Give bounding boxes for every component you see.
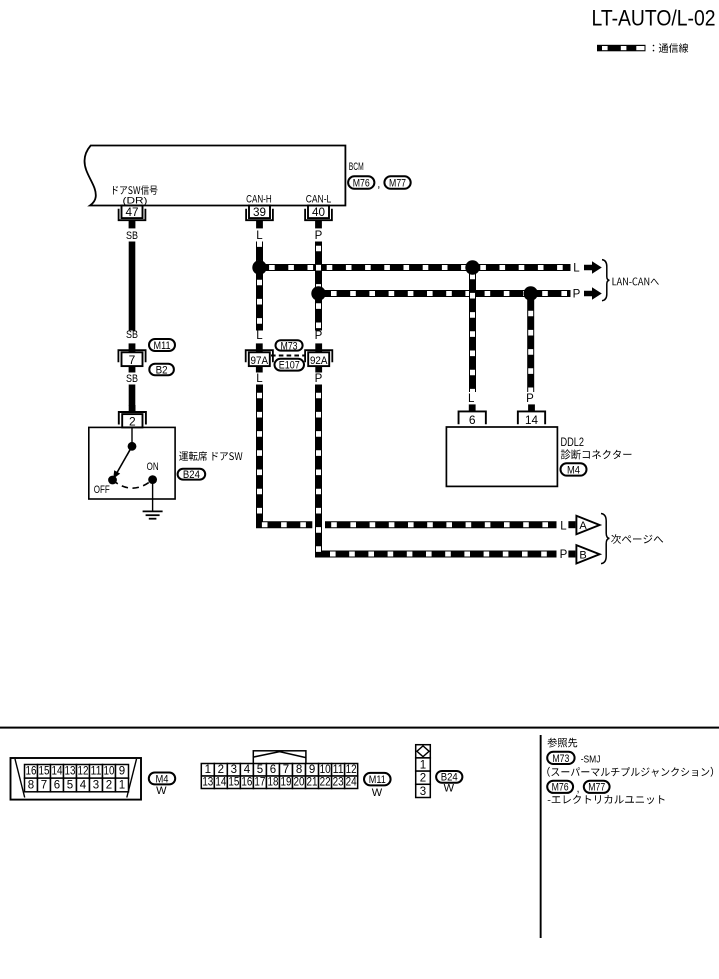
svg-text:,: , bbox=[577, 783, 580, 795]
svg-text:7: 7 bbox=[283, 764, 289, 776]
svg-text:5: 5 bbox=[67, 779, 73, 791]
ground symbol bbox=[143, 511, 163, 518]
svg-text:CAN-L: CAN-L bbox=[306, 193, 332, 205]
CAN-H wire from pin 39 bbox=[256, 242, 263, 331]
DDL2 pin 6 bbox=[469, 404, 476, 412]
BCM pin 39 bbox=[246, 209, 273, 221]
connector square for arrow A bbox=[568, 521, 575, 528]
arrow to LAN-CAN (CAN-L) bbox=[584, 287, 602, 300]
svg-text:22: 22 bbox=[320, 777, 331, 789]
label エレクトリカルユニット bbox=[548, 795, 665, 804]
svg-text:21: 21 bbox=[307, 777, 318, 789]
svg-text:6: 6 bbox=[270, 764, 276, 776]
connector M77 oval bbox=[584, 781, 610, 793]
CAN-L bus wire to LAN-CAN (P) bbox=[319, 290, 571, 297]
next page arrow A bbox=[576, 516, 599, 534]
CAN-L wire from pin 40 bbox=[315, 242, 322, 331]
svg-text:L: L bbox=[468, 393, 475, 405]
svg-text:12: 12 bbox=[78, 766, 89, 778]
switch common contact dot bbox=[128, 442, 137, 451]
DDL2 diagnostic connector box bbox=[446, 427, 557, 486]
svg-text:M76: M76 bbox=[552, 782, 569, 794]
svg-text:2: 2 bbox=[129, 415, 136, 429]
ON contact dot bbox=[148, 475, 157, 484]
BCM control module box bbox=[84, 146, 345, 206]
svg-text:11: 11 bbox=[333, 764, 344, 776]
arrow to LAN-CAN (CAN-H) bbox=[584, 261, 602, 274]
svg-text:2: 2 bbox=[420, 773, 426, 785]
junction dot CAN-L at pin40 column bbox=[311, 286, 325, 300]
svg-text:L: L bbox=[256, 373, 263, 385]
junction dot CAN-H at DDL2 branch bbox=[465, 260, 479, 274]
svg-text:P: P bbox=[560, 549, 568, 561]
svg-text:1: 1 bbox=[420, 760, 426, 772]
svg-text:P: P bbox=[526, 393, 534, 405]
svg-text:15: 15 bbox=[228, 777, 239, 789]
svg-text:M77: M77 bbox=[389, 177, 406, 189]
svg-text:1: 1 bbox=[119, 779, 125, 791]
connector E107 oval bbox=[275, 359, 305, 371]
dashed link between 97A and 92A bbox=[271, 355, 305, 357]
connector M76 oval bbox=[547, 781, 573, 793]
svg-text:M4: M4 bbox=[156, 773, 169, 785]
svg-text:10: 10 bbox=[104, 766, 115, 778]
svg-text:47: 47 bbox=[126, 205, 139, 219]
connector face M4 bbox=[11, 758, 142, 800]
svg-text:L: L bbox=[256, 230, 263, 242]
svg-text:M76: M76 bbox=[353, 177, 370, 189]
svg-text:M73: M73 bbox=[281, 340, 298, 352]
BCM internal label ドアSW信号 bbox=[113, 185, 158, 195]
svg-text:3: 3 bbox=[93, 779, 99, 791]
svg-text:7: 7 bbox=[129, 353, 136, 367]
CAN-H wire continues right of crossing bbox=[325, 521, 557, 528]
junction dot CAN-L at DDL2 branch bbox=[524, 286, 538, 300]
wire ON contact to ground bbox=[152, 480, 154, 512]
svg-text:M4: M4 bbox=[567, 464, 580, 476]
switch blade with arrowhead toward OFF bbox=[117, 446, 133, 473]
wire SB from BCM pin47 to connector M11/B2 bbox=[129, 242, 136, 331]
svg-text:L: L bbox=[256, 330, 263, 342]
svg-text:4: 4 bbox=[244, 764, 251, 776]
door switch pin 2 bbox=[129, 405, 136, 412]
svg-text:M11: M11 bbox=[369, 774, 386, 786]
svg-text:M77: M77 bbox=[588, 782, 605, 794]
svg-text:W: W bbox=[372, 787, 383, 799]
connector B24 oval bbox=[436, 771, 462, 783]
brace for LAN-CAN group bbox=[602, 260, 609, 301]
connector square for arrow B bbox=[568, 551, 575, 558]
svg-text:E107: E107 bbox=[279, 360, 300, 372]
svg-text:M73: M73 bbox=[552, 753, 569, 765]
svg-text:40: 40 bbox=[312, 205, 325, 219]
svg-text:B: B bbox=[579, 549, 586, 561]
connector face B24 bbox=[416, 745, 431, 798]
svg-text:P: P bbox=[315, 230, 323, 242]
connector M11 oval bbox=[364, 773, 391, 786]
svg-text:12: 12 bbox=[346, 764, 357, 776]
connector face M11 bbox=[201, 751, 357, 789]
svg-text:16: 16 bbox=[241, 777, 252, 789]
svg-text:10: 10 bbox=[320, 764, 331, 776]
svg-text:3: 3 bbox=[420, 786, 426, 798]
svg-text:14: 14 bbox=[52, 766, 64, 778]
svg-text:DDL2: DDL2 bbox=[561, 437, 585, 449]
svg-text:W: W bbox=[156, 785, 167, 797]
connector M76 oval bbox=[348, 176, 374, 189]
svg-text:SB: SB bbox=[126, 373, 138, 385]
legend label 通信線 bbox=[653, 43, 689, 53]
label スーパーマルチプルジャンクション bbox=[547, 767, 713, 777]
svg-text:13: 13 bbox=[202, 777, 213, 789]
svg-text:B24: B24 bbox=[183, 469, 200, 481]
svg-text:,: , bbox=[377, 179, 380, 191]
svg-text:CAN-H: CAN-H bbox=[246, 193, 272, 205]
inline connector 97A bbox=[256, 343, 263, 352]
label LAN-CANへ bbox=[613, 278, 659, 286]
svg-text:23: 23 bbox=[333, 777, 344, 789]
svg-text:8: 8 bbox=[296, 764, 302, 776]
svg-text:L: L bbox=[573, 263, 580, 275]
svg-text:OFF: OFF bbox=[94, 484, 110, 496]
svg-text:SB: SB bbox=[126, 230, 138, 242]
CAN-H bus wire to LAN-CAN (L) bbox=[260, 264, 571, 271]
next page arrow B bbox=[576, 545, 599, 563]
label 次ページへ bbox=[611, 534, 663, 544]
svg-text:ON: ON bbox=[147, 461, 159, 473]
junction dot CAN-H at pin39 column bbox=[252, 260, 266, 274]
svg-text:M11: M11 bbox=[154, 340, 171, 352]
svg-text:P: P bbox=[315, 373, 323, 385]
BCM pin 47 bbox=[119, 209, 146, 221]
svg-text:39: 39 bbox=[253, 205, 266, 219]
CAN-H wire from 97A down and right to next page A bbox=[260, 385, 313, 525]
reference heading 参照先 bbox=[547, 738, 577, 748]
svg-text:16: 16 bbox=[26, 766, 37, 778]
inline connector 7 (M11/B2) bbox=[129, 343, 136, 352]
svg-text:6: 6 bbox=[54, 779, 60, 791]
svg-text:14: 14 bbox=[525, 413, 538, 427]
svg-text:20: 20 bbox=[294, 777, 305, 789]
svg-text:-SMJ: -SMJ bbox=[581, 754, 601, 766]
svg-text:SB: SB bbox=[126, 329, 138, 341]
CAN-L wire from 92A down and right to next page B bbox=[319, 385, 557, 555]
svg-text:B2: B2 bbox=[156, 364, 168, 376]
svg-text:15: 15 bbox=[39, 766, 50, 778]
DDL2 label 診断コネクター bbox=[561, 449, 632, 459]
svg-text:9: 9 bbox=[119, 766, 125, 778]
connector M4 oval bbox=[149, 773, 175, 785]
svg-text:6: 6 bbox=[469, 413, 476, 427]
svg-text:92A: 92A bbox=[310, 355, 328, 367]
svg-text:A: A bbox=[579, 520, 587, 532]
svg-text:2: 2 bbox=[218, 764, 224, 776]
wire SB from connector 7 to door switch pin 2 bbox=[129, 385, 136, 406]
switch common node wire bbox=[131, 427, 133, 444]
svg-text:P: P bbox=[315, 330, 323, 342]
svg-text:2: 2 bbox=[106, 779, 112, 791]
svg-text:8: 8 bbox=[28, 779, 34, 791]
connector M73 oval bbox=[276, 340, 303, 350]
DDL2 pin 14 bbox=[528, 404, 535, 412]
dashed throw arc OFF to ON bbox=[113, 480, 153, 489]
connector M4 oval bbox=[561, 463, 587, 475]
connector B2 oval bbox=[149, 364, 174, 376]
svg-text:11: 11 bbox=[91, 766, 102, 778]
svg-text:LT-AUTO/L-02: LT-AUTO/L-02 bbox=[592, 6, 716, 31]
legend communication-line sample bar bbox=[597, 45, 646, 52]
CAN-L branch wire down to DDL2 pin 14 bbox=[527, 294, 534, 393]
connector M73 oval bbox=[547, 752, 574, 764]
svg-text:18: 18 bbox=[267, 777, 278, 789]
svg-text:L: L bbox=[560, 520, 567, 532]
OFF contact dot bbox=[108, 476, 117, 485]
svg-text:W: W bbox=[444, 783, 455, 795]
inline connector 92A bbox=[315, 343, 322, 352]
BCM pin 40 bbox=[305, 209, 332, 221]
connector M77 oval bbox=[384, 176, 410, 189]
footer separator line bbox=[0, 727, 719, 729]
connector B24 oval bbox=[178, 469, 206, 480]
reference panel divider bbox=[540, 735, 542, 938]
svg-text:9: 9 bbox=[309, 764, 315, 776]
svg-text:97A: 97A bbox=[251, 355, 269, 367]
svg-text:BCM: BCM bbox=[349, 161, 364, 173]
svg-text:3: 3 bbox=[231, 764, 237, 776]
svg-text:17: 17 bbox=[254, 777, 265, 789]
door switch box (運転席ドアSW B24) bbox=[89, 427, 175, 499]
svg-text:7: 7 bbox=[41, 779, 47, 791]
svg-text:P: P bbox=[573, 289, 581, 301]
connector M11 oval bbox=[149, 339, 175, 351]
CAN-H branch wire down to DDL2 pin 6 bbox=[469, 268, 476, 393]
svg-text:5: 5 bbox=[257, 764, 263, 776]
svg-text:13: 13 bbox=[65, 766, 76, 778]
svg-text:1: 1 bbox=[205, 764, 211, 776]
svg-text:19: 19 bbox=[280, 777, 291, 789]
brace for next page group bbox=[601, 514, 609, 564]
switch name 運転席 ドアSW bbox=[179, 451, 242, 461]
svg-text:14: 14 bbox=[215, 777, 227, 789]
svg-text:4: 4 bbox=[80, 779, 87, 791]
svg-text:24: 24 bbox=[346, 777, 358, 789]
